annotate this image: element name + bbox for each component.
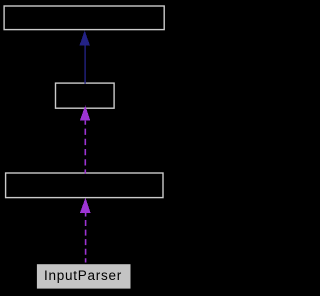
svg-text:InputParser: InputParser [44, 268, 122, 283]
